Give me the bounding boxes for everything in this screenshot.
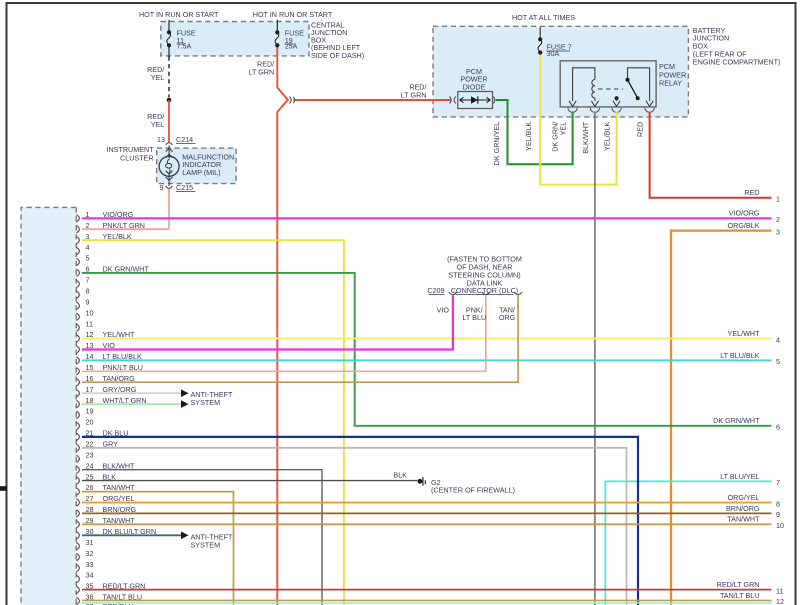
svg-text:7: 7 bbox=[86, 276, 90, 285]
svg-text:32: 32 bbox=[86, 549, 94, 558]
svg-text:5: 5 bbox=[86, 254, 90, 263]
svg-text:YEL/WHT: YEL/WHT bbox=[728, 329, 761, 338]
svg-text:12: 12 bbox=[86, 330, 94, 339]
svg-text:HOT IN RUN OR START: HOT IN RUN OR START bbox=[253, 10, 333, 19]
svg-text:14: 14 bbox=[86, 352, 94, 361]
svg-text:17: 17 bbox=[86, 385, 94, 394]
fuse F19 25A bbox=[276, 20, 278, 33]
svg-text:DK BLU/LT GRN: DK BLU/LT GRN bbox=[103, 527, 157, 536]
svg-text:DK GRN/YEL: DK GRN/YEL bbox=[492, 122, 501, 166]
svg-text:SYSTEM: SYSTEM bbox=[191, 540, 221, 549]
svg-text:GRY: GRY bbox=[103, 440, 119, 449]
wire BLK/WHT from relay pin 2 down whole page bbox=[594, 112, 596, 605]
wire pin 37 partial bbox=[82, 602, 772, 604]
svg-text:1: 1 bbox=[776, 195, 780, 204]
svg-text:11: 11 bbox=[776, 586, 783, 595]
svg-text:C209: C209 bbox=[427, 286, 444, 295]
svg-text:LT GRN: LT GRN bbox=[401, 90, 427, 99]
svg-text:LT BLU: LT BLU bbox=[462, 313, 486, 322]
wire TAN/WHT pin 29 to terminal 10 bbox=[82, 523, 772, 525]
inline connector at RED/LT GRN branch bbox=[290, 97, 292, 104]
wire DK GRN/YEL diode to relay pin 1 bbox=[496, 100, 573, 164]
svg-text:11: 11 bbox=[86, 319, 93, 328]
instrument cluster box border bbox=[157, 148, 236, 184]
svg-text:35: 35 bbox=[86, 582, 94, 591]
svg-text:24: 24 bbox=[86, 461, 94, 470]
svg-text:3: 3 bbox=[86, 232, 90, 241]
svg-text:5: 5 bbox=[776, 357, 780, 366]
svg-text:YEL: YEL bbox=[151, 73, 165, 82]
battery junction box border bbox=[433, 26, 688, 117]
svg-text:YEL/BLK: YEL/BLK bbox=[603, 122, 612, 151]
wire YEL/BLK pin 3 down whole page bbox=[82, 240, 344, 605]
wire GRY/ORG pin 17 to anti-theft bbox=[82, 392, 182, 394]
svg-text:10: 10 bbox=[776, 521, 784, 530]
wire RED/LT GRN from fuse 19 down whole page bbox=[277, 46, 288, 605]
PCM connector box border bbox=[21, 207, 76, 605]
wire RED/LT GRN branch to PCM power diode bbox=[294, 99, 451, 101]
svg-text:YEL/BLK: YEL/BLK bbox=[524, 122, 533, 151]
svg-text:33: 33 bbox=[86, 560, 94, 569]
svg-text:BLK/WHT: BLK/WHT bbox=[103, 461, 136, 470]
svg-text:15: 15 bbox=[86, 363, 94, 372]
wire DK BLU/LT GRN pin 30 to anti-theft bbox=[82, 534, 182, 536]
svg-text:TAN/ORG: TAN/ORG bbox=[103, 374, 136, 383]
svg-text:TAN/LT BLU: TAN/LT BLU bbox=[720, 591, 760, 600]
DLC connector C209 cups bbox=[449, 292, 457, 295]
svg-text:BLK/WHT: BLK/WHT bbox=[581, 121, 590, 154]
svg-text:WHT/LT GRN: WHT/LT GRN bbox=[103, 396, 147, 405]
svg-text:ORG/YEL: ORG/YEL bbox=[103, 494, 135, 503]
wire RED from relay pin 4 to terminal 1 bbox=[650, 112, 772, 198]
fuse F7 30A bbox=[538, 37, 542, 41]
svg-text:19: 19 bbox=[86, 407, 94, 416]
wire VIO/ORG pin 1 to terminal 2 bbox=[82, 217, 772, 219]
svg-text:16: 16 bbox=[86, 374, 94, 383]
wire PNK/LT GRN pin 2 bbox=[82, 228, 169, 230]
svg-text:8: 8 bbox=[86, 287, 90, 296]
svg-text:HOT AT ALL TIMES: HOT AT ALL TIMES bbox=[512, 13, 575, 22]
anti-theft arrow pin 17 bbox=[181, 389, 189, 397]
svg-text:DIODE: DIODE bbox=[463, 83, 486, 92]
svg-text:LT BLU/BLK: LT BLU/BLK bbox=[720, 351, 759, 360]
svg-text:34: 34 bbox=[86, 571, 94, 580]
svg-text:(CENTER OF FIREWALL): (CENTER OF FIREWALL) bbox=[431, 486, 515, 495]
svg-text:PNK/LT GRN: PNK/LT GRN bbox=[103, 221, 145, 230]
svg-text:25: 25 bbox=[86, 472, 94, 481]
svg-text:LT BLU/BLK: LT BLU/BLK bbox=[103, 352, 142, 361]
wire ORG/BLK terminal 3 down whole page bbox=[671, 231, 772, 605]
svg-text:22: 22 bbox=[86, 440, 94, 449]
svg-text:SYSTEM: SYSTEM bbox=[191, 398, 221, 407]
relay actuation dashed link bbox=[598, 88, 623, 90]
inline connector at diode input bbox=[450, 97, 452, 104]
svg-text:6: 6 bbox=[776, 423, 780, 432]
svg-text:25A: 25A bbox=[285, 42, 298, 51]
svg-text:TAN/WHT: TAN/WHT bbox=[103, 483, 136, 492]
svg-text:1: 1 bbox=[86, 210, 90, 219]
svg-text:VIO: VIO bbox=[437, 305, 450, 314]
svg-text:4: 4 bbox=[86, 243, 90, 252]
PCM power relay K1 box bbox=[560, 61, 656, 107]
anti-theft arrow pin 18 bbox=[181, 400, 189, 408]
svg-text:26: 26 bbox=[86, 483, 94, 492]
wire VIO pin 13 to DLC bbox=[82, 295, 453, 349]
wire PNK/LT GRN from C215 down to pin 2 row bbox=[168, 189, 170, 230]
wire TAN/WHT pin 26 down whole page bbox=[82, 492, 234, 605]
central junction box border bbox=[161, 22, 309, 56]
wire WHT/LT GRN pin 18 to anti-theft bbox=[82, 403, 182, 405]
svg-text:RED/LT GRN: RED/LT GRN bbox=[717, 580, 760, 589]
junction node on RED/YEL wire bbox=[167, 98, 172, 103]
svg-text:9: 9 bbox=[160, 183, 164, 192]
svg-text:29: 29 bbox=[86, 516, 94, 525]
svg-text:23: 23 bbox=[86, 451, 94, 460]
connector C214 symbol bbox=[166, 143, 173, 145]
relay pin arrows and connectors bbox=[569, 101, 576, 107]
svg-text:4: 4 bbox=[776, 335, 780, 344]
MIL lamp bbox=[159, 156, 179, 176]
svg-text:VIO: VIO bbox=[103, 341, 116, 350]
connector C215 symbol bbox=[166, 186, 173, 188]
wire BLK pin 25 to ground G2 bbox=[82, 480, 417, 482]
svg-text:DK GRN/WHT: DK GRN/WHT bbox=[713, 416, 760, 425]
central junction box fill bbox=[161, 22, 309, 56]
wire RED/LT GRN pin 35 to terminal 11 bbox=[82, 589, 772, 591]
svg-text:36: 36 bbox=[86, 593, 94, 602]
svg-text:18: 18 bbox=[86, 396, 94, 405]
svg-text:BRN/ORG: BRN/ORG bbox=[103, 505, 137, 514]
svg-text:TAN/WHT: TAN/WHT bbox=[727, 515, 760, 524]
svg-text:TAN/WHT: TAN/WHT bbox=[103, 516, 136, 525]
ground G2 symbol bbox=[418, 479, 423, 484]
PCM power diode D1 box bbox=[458, 92, 493, 109]
wire YEL/WHT pin 12 to terminal 4 bbox=[82, 338, 772, 340]
MIL lamp lead in with arrows bbox=[168, 146, 170, 159]
instrument cluster box fill bbox=[157, 148, 236, 184]
scan mark left edge bbox=[0, 486, 7, 491]
MIL lamp lead out with arrows bbox=[168, 175, 170, 187]
wire YEL/BLK fuse 7 to relay pin 3 bbox=[540, 54, 616, 185]
svg-text:YEL: YEL bbox=[559, 122, 568, 136]
svg-text:21: 21 bbox=[86, 429, 94, 438]
wire TAN/LT BLU pin 36 to terminal 12 bbox=[82, 599, 772, 601]
svg-text:2: 2 bbox=[776, 215, 780, 224]
svg-text:ORG/BLK: ORG/BLK bbox=[728, 221, 760, 230]
svg-text:RED: RED bbox=[744, 188, 759, 197]
svg-text:9: 9 bbox=[86, 297, 90, 306]
svg-text:HOT IN RUN OR START: HOT IN RUN OR START bbox=[139, 10, 219, 19]
svg-text:CONNECTOR (DLC): CONNECTOR (DLC) bbox=[451, 286, 518, 295]
svg-text:LAMP (MIL): LAMP (MIL) bbox=[182, 168, 220, 177]
svg-text:ENGINE COMPARTMENT): ENGINE COMPARTMENT) bbox=[693, 57, 781, 66]
wire PNK/LT BLU pin 15 to DLC bbox=[82, 295, 486, 371]
svg-text:31: 31 bbox=[86, 538, 94, 547]
svg-text:7.5A: 7.5A bbox=[177, 42, 192, 51]
wire BRN/ORG pin 28 to terminal 9 bbox=[82, 512, 772, 514]
svg-text:ORG/YEL: ORG/YEL bbox=[728, 493, 760, 502]
svg-text:VIO/ORG: VIO/ORG bbox=[729, 209, 760, 218]
svg-text:BLK: BLK bbox=[103, 472, 117, 481]
svg-text:YEL: YEL bbox=[151, 120, 165, 129]
wire DK GRN/WHT pin 6 to terminal 6 bbox=[82, 273, 772, 426]
svg-text:2: 2 bbox=[86, 221, 90, 230]
svg-text:7: 7 bbox=[776, 478, 780, 487]
svg-text:30: 30 bbox=[86, 527, 94, 536]
wire BLK/WHT pin 24 down whole page bbox=[82, 470, 322, 605]
svg-text:9: 9 bbox=[776, 510, 780, 519]
svg-text:12: 12 bbox=[776, 597, 784, 605]
svg-text:LT BLU/YEL: LT BLU/YEL bbox=[720, 472, 759, 481]
svg-text:TAN/LT BLU: TAN/LT BLU bbox=[103, 593, 143, 602]
diode element bbox=[460, 99, 491, 101]
svg-text:DK BLU: DK BLU bbox=[103, 429, 129, 438]
wire LT BLU/YEL terminal 7 down whole page bbox=[605, 481, 771, 605]
wire RED/YEL solid to C214 bbox=[168, 100, 170, 143]
svg-text:ORG: ORG bbox=[499, 313, 516, 322]
wire DK BLU pin 21 down whole page bbox=[82, 437, 638, 605]
svg-text:BRN/ORG: BRN/ORG bbox=[726, 504, 760, 513]
wire ORG/YEL pin 27 to terminal 8 bbox=[82, 502, 772, 504]
svg-text:RED: RED bbox=[636, 122, 645, 137]
svg-text:RED/LT GRN: RED/LT GRN bbox=[103, 582, 146, 591]
relay switch bbox=[628, 68, 650, 101]
svg-text:13: 13 bbox=[86, 341, 94, 350]
wire GRY pin 22 down whole page bbox=[82, 448, 627, 605]
fuse F7 30A feed stub bbox=[539, 27, 541, 38]
wire LT BLU/BLK pin 14 to terminal 5 bbox=[82, 359, 772, 361]
fuse F11 7.5A bbox=[168, 20, 170, 33]
relay coil branch bbox=[573, 68, 595, 101]
svg-text:YEL/WHT: YEL/WHT bbox=[103, 330, 136, 339]
svg-text:6: 6 bbox=[86, 265, 90, 274]
svg-text:DK GRN/WHT: DK GRN/WHT bbox=[103, 265, 150, 274]
PCM connector pin cups bbox=[76, 215, 79, 605]
svg-text:VIO/ORG: VIO/ORG bbox=[103, 210, 134, 219]
svg-text:RELAY: RELAY bbox=[659, 78, 682, 87]
svg-text:8: 8 bbox=[776, 499, 780, 508]
relay common contact node bbox=[615, 96, 619, 100]
svg-text:C214: C214 bbox=[176, 135, 193, 144]
svg-text:20: 20 bbox=[86, 418, 94, 427]
svg-text:3: 3 bbox=[776, 227, 780, 236]
svg-text:10: 10 bbox=[86, 308, 94, 317]
svg-text:28: 28 bbox=[86, 505, 94, 514]
wire RED/YEL dashed segment below fuse 11 bbox=[168, 57, 170, 98]
svg-text:SIDE OF DASH): SIDE OF DASH) bbox=[311, 51, 364, 60]
svg-text:PNK/LT BLU: PNK/LT BLU bbox=[103, 363, 143, 372]
wire TAN/ORG pin 16 to DLC bbox=[82, 295, 518, 382]
svg-text:13: 13 bbox=[157, 135, 165, 144]
svg-text:27: 27 bbox=[86, 494, 94, 503]
anti-theft arrow pin 30 bbox=[181, 532, 189, 540]
battery junction box fill bbox=[433, 26, 688, 117]
PCM connector box fill (left) bbox=[21, 207, 76, 605]
svg-text:YEL/BLK: YEL/BLK bbox=[103, 232, 132, 241]
svg-text:C215: C215 bbox=[176, 183, 193, 192]
svg-text:LT GRN: LT GRN bbox=[248, 67, 274, 76]
inline connector at diode output bbox=[493, 97, 495, 104]
svg-text:30A: 30A bbox=[547, 49, 560, 58]
svg-text:CLUSTER: CLUSTER bbox=[120, 153, 154, 162]
svg-text:BLK: BLK bbox=[393, 470, 407, 479]
svg-text:GRY/ORG: GRY/ORG bbox=[103, 385, 137, 394]
